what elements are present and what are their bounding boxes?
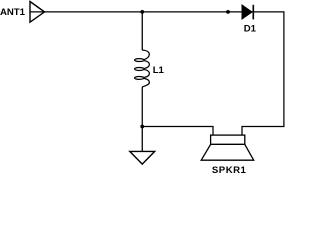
- svg-text:SPKR1: SPKR1: [212, 165, 247, 176]
- svg-text:L1: L1: [153, 65, 165, 76]
- svg-text:ANT1: ANT1: [0, 7, 26, 18]
- svg-text:D1: D1: [244, 24, 257, 35]
